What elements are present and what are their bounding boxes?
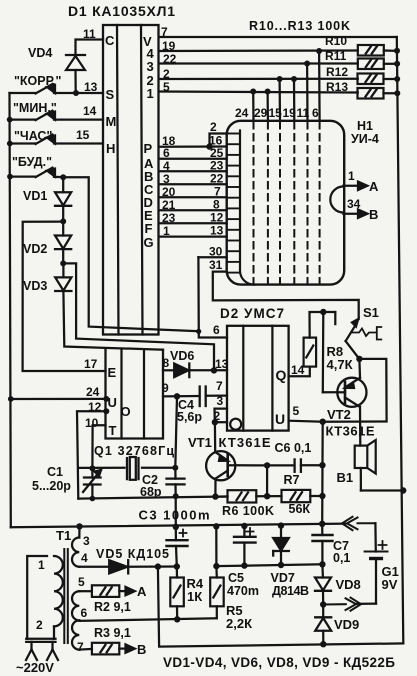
- label A2: [137, 584, 147, 599]
- label pin22: [163, 52, 177, 66]
- wire D2 pin14 to R8: [289, 367, 310, 377]
- wire T1 pin7 to R3: [79, 648, 92, 651]
- node VD1/VD2 E-tap: [60, 218, 66, 224]
- transformer T1 winding 6-7: [72, 620, 79, 649]
- svg-text:1: 1: [348, 169, 355, 183]
- svg-text:R10: R10: [325, 34, 347, 48]
- label D2 pin2: [214, 409, 221, 423]
- resistor R10: [358, 45, 397, 56]
- svg-text:17: 17: [84, 357, 98, 371]
- label G1: [382, 564, 399, 579]
- wire S1 node to U net: [323, 359, 387, 422]
- wire left bus: [10, 93, 11, 527]
- node rail VD7: [278, 522, 284, 528]
- labels display top pins 24 29 15 19 11 6: [235, 106, 319, 120]
- IC D2 body: [227, 326, 289, 431]
- display H1 body: [227, 121, 345, 285]
- svg-text:7: 7: [216, 379, 223, 393]
- resistor R13: [358, 88, 398, 99]
- switch SB MIN: [10, 111, 103, 121]
- svg-text:Н1: Н1: [357, 119, 373, 133]
- label VD7: [271, 571, 295, 585]
- svg-text:13: 13: [84, 80, 98, 94]
- pin 11 label: [83, 27, 96, 41]
- node C1 top: [89, 465, 95, 471]
- capacitor C4: [200, 387, 206, 407]
- resistor R12: [358, 74, 398, 85]
- svg-text:D1 КА1035ХЛ1: D1 КА1035ХЛ1: [68, 3, 175, 19]
- svg-text:R3 9,1: R3 9,1: [94, 626, 131, 640]
- wire terminal B2 arrow: [119, 644, 135, 652]
- transistor VT2: [323, 378, 367, 446]
- wire BUD node to D2 pin6 and display pin30: [63, 177, 198, 331]
- label diode types: [163, 655, 395, 670]
- node R12 bus: [394, 76, 400, 82]
- label 14: [83, 104, 97, 118]
- display inner pin stubs: [227, 134, 240, 273]
- label VD7 type: [272, 584, 309, 598]
- label T1 pin6: [81, 606, 88, 620]
- node D2 pin2 VT1: [212, 419, 218, 425]
- diode VD5: [79, 560, 177, 573]
- svg-text:23: 23: [162, 211, 176, 225]
- wire T pin to C1: [92, 425, 105, 468]
- svg-text:С3 1000m: С3 1000m: [139, 508, 210, 523]
- svg-text:R13: R13: [326, 80, 348, 94]
- svg-text:R10...R13 100K: R10...R13 100K: [249, 19, 350, 33]
- label D2 letter U: [275, 411, 285, 427]
- svg-text:O: O: [121, 404, 131, 419]
- label D2 pin8: [163, 356, 170, 370]
- label R4: [187, 576, 204, 591]
- label VD5 KD105: [96, 547, 169, 561]
- svg-text:3: 3: [163, 172, 170, 186]
- node bus MIN: [7, 117, 13, 123]
- label VT2 type: [326, 424, 375, 439]
- zener VD7: [273, 526, 289, 565]
- svg-text:S1: S1: [363, 305, 379, 320]
- label R2 9,1: [94, 600, 131, 614]
- label R4 value: [187, 589, 202, 604]
- svg-text:24: 24: [235, 106, 249, 120]
- node drop22: [304, 61, 310, 67]
- label R5: [226, 603, 243, 618]
- resistor R4: [170, 567, 184, 620]
- wire D2 pin5 to node: [289, 421, 323, 422]
- wire pin2 row: [159, 78, 358, 81]
- label VD1: [23, 189, 47, 203]
- label CHAS: [14, 129, 52, 143]
- wire drop row5 to display pin29: [266, 92, 269, 121]
- label T1 pin2: [36, 618, 43, 632]
- wire VD5 node down to bottom frame: [158, 567, 403, 647]
- label C1: [47, 465, 63, 479]
- svg-text:С5: С5: [228, 571, 244, 585]
- wire display pin30 stub: [198, 256, 226, 258]
- label D2 letter Q: [276, 367, 287, 383]
- switch SB KORR: [10, 84, 104, 94]
- switch SB BUD: [10, 168, 63, 178]
- D2 circle mark at pin2: [230, 419, 241, 430]
- svg-text:3: 3: [83, 534, 90, 548]
- diode VD3: [55, 263, 71, 291]
- svg-text:VD2: VD2: [23, 242, 47, 256]
- node pin9 drop: [174, 393, 180, 399]
- diode VD9: [315, 605, 331, 644]
- svg-text:VD9: VD9: [334, 617, 359, 632]
- node C2 bottom: [173, 493, 179, 499]
- label D2 pin9: [162, 381, 169, 395]
- wire T1 pin5 to R2: [79, 590, 92, 592]
- label C6 0,1: [275, 441, 312, 455]
- IC D1 title: [68, 3, 175, 19]
- label D2 pin3: [217, 394, 224, 408]
- label 12: [88, 400, 102, 414]
- label 17: [84, 357, 98, 371]
- IC D1 main body: [103, 25, 159, 335]
- svg-text:R7: R7: [284, 473, 300, 487]
- node VT1 collector on R6 wire: [212, 493, 218, 499]
- node drop2b: [291, 76, 297, 82]
- svg-text:21: 21: [162, 198, 176, 212]
- svg-text:29: 29: [254, 106, 268, 120]
- node rail R5 branch: [213, 523, 219, 529]
- svg-text:4,7К: 4,7К: [327, 357, 353, 372]
- label 220V: [16, 660, 54, 675]
- svg-text:Д814В: Д814В: [272, 584, 309, 598]
- connector X1 female: [342, 517, 375, 530]
- svg-text:VD6: VD6: [170, 349, 194, 363]
- wire rail branch down to R5/C5 row: [215, 526, 217, 566]
- labels D1 output pin numbers: [162, 134, 176, 238]
- svg-text:1: 1: [38, 558, 45, 572]
- wire oscillator ground row: [78, 497, 227, 499]
- wire lower mid row C5 VD7 C7: [216, 564, 322, 566]
- svg-text:15: 15: [76, 128, 90, 142]
- label KORR: [14, 74, 62, 88]
- node S1 emitter junction: [356, 356, 362, 362]
- node rail T1 pin3: [76, 523, 82, 529]
- node R5 top: [213, 563, 219, 569]
- label R7: [284, 473, 300, 487]
- svg-text:9: 9: [162, 381, 169, 395]
- display filament notch: [330, 187, 343, 213]
- label VD3: [23, 279, 47, 293]
- svg-text:19: 19: [283, 106, 297, 120]
- svg-text:VD5 КД105: VD5 КД105: [96, 547, 169, 561]
- resistor R11: [358, 59, 397, 70]
- label pin2: [163, 67, 170, 81]
- resistor R5: [210, 566, 224, 618]
- svg-text:4: 4: [81, 551, 88, 565]
- resistor R8: [304, 338, 317, 367]
- svg-text:9V: 9V: [382, 577, 398, 592]
- wire D2 pin3 bracket: [215, 409, 228, 423]
- label 13: [84, 80, 98, 94]
- node VD5 frame drop: [155, 563, 161, 569]
- label R10...R13 100K: [249, 19, 350, 33]
- wire pin9 to C4: [163, 395, 200, 398]
- wire drop row2 to display pin15: [278, 79, 281, 121]
- svg-text:Q: Q: [276, 367, 287, 383]
- switch S1: [335, 312, 381, 359]
- wire terminal A arrow: [343, 182, 367, 190]
- label T1 pin3: [83, 534, 90, 548]
- label pin5: [163, 80, 170, 94]
- node VD9 bottom frame: [320, 641, 326, 647]
- IC D1 lower section body: [106, 349, 164, 438]
- svg-text:13: 13: [210, 224, 224, 238]
- wire battery plus branch: [374, 523, 377, 551]
- node B1 bus: [400, 487, 406, 493]
- label BUD: [12, 155, 52, 169]
- svg-text:2: 2: [210, 120, 217, 134]
- wire terminal B arrow: [343, 210, 367, 218]
- label C4 value: [177, 410, 202, 424]
- svg-text:Q1 32768Гц: Q1 32768Гц: [94, 444, 174, 458]
- label pin7: [161, 25, 168, 39]
- node C1 bottom: [90, 496, 96, 502]
- wire U pin 24: [11, 398, 107, 400]
- node rail C3: [173, 524, 179, 530]
- label 10: [85, 416, 99, 430]
- capacitor C7: [313, 524, 333, 565]
- label R6 100K: [222, 504, 274, 518]
- label D2 UMS7: [220, 306, 284, 321]
- node VD6 D2pin13: [211, 367, 217, 373]
- diode VD8: [315, 564, 331, 604]
- node U pin: [103, 396, 109, 402]
- label 24: [86, 385, 100, 399]
- svg-text:U: U: [275, 411, 285, 427]
- svg-text:А: А: [369, 179, 379, 194]
- node bus U-wire: [8, 396, 14, 402]
- resistor R7: [282, 490, 311, 502]
- svg-text:R2 9,1: R2 9,1: [94, 600, 131, 614]
- label Q1: [94, 444, 174, 458]
- label D2 pin13: [215, 357, 229, 371]
- node drop2a: [277, 76, 283, 82]
- svg-text:"ЧАС": "ЧАС": [14, 129, 52, 143]
- svg-text:УИ-4: УИ-4: [351, 132, 379, 146]
- label R8 value: [327, 357, 353, 372]
- diode VD2: [55, 221, 71, 263]
- label G1 value: [382, 577, 398, 592]
- svg-text:КТ361Е: КТ361Е: [326, 424, 375, 439]
- node pin5 U junction: [320, 419, 326, 425]
- wire right bus: [397, 37, 404, 643]
- wire R8 top to S1/base node: [310, 312, 336, 338]
- wire VT1 base to C6: [235, 464, 294, 466]
- svg-text:F: F: [145, 221, 153, 236]
- node drop19: [316, 48, 322, 54]
- label D2 pin5: [293, 404, 300, 418]
- svg-text:5...20p: 5...20p: [32, 479, 71, 493]
- node C7 bottom: [319, 561, 325, 567]
- label VD9: [334, 617, 359, 632]
- svg-text:2: 2: [36, 618, 43, 632]
- svg-text:0,1: 0,1: [333, 551, 350, 565]
- svg-text:2,2К: 2,2К: [226, 616, 252, 631]
- svg-text:6: 6: [213, 323, 220, 337]
- wire drop row5 to display pin24: [252, 92, 255, 121]
- diode VD4: [66, 55, 85, 93]
- label C2: [142, 473, 158, 487]
- node R7 right: [319, 493, 325, 499]
- resistor R6: [228, 490, 257, 502]
- node VD7 bottom: [278, 562, 284, 568]
- svg-text:В: В: [369, 207, 378, 222]
- svg-text:C: C: [105, 33, 115, 48]
- wire VD2-VD3 node to VD6 node: [63, 263, 214, 370]
- wire pin11 to C: [76, 40, 104, 56]
- svg-text:D2 УМС7: D2 УМС7: [220, 306, 284, 321]
- svg-text:E: E: [108, 365, 117, 380]
- label T1 pin4: [81, 551, 88, 565]
- node R6R7 mid: [264, 493, 270, 499]
- wire display pin31 to S1: [213, 272, 359, 319]
- battery G1: [365, 541, 388, 604]
- wire VD1-VD2 node to pin E17: [23, 222, 106, 371]
- node R11 bus: [394, 61, 400, 67]
- diode VD1: [55, 177, 71, 221]
- svg-text:B1: B1: [337, 470, 354, 485]
- svg-text:1К: 1К: [187, 589, 202, 604]
- node bus CHAS: [7, 141, 13, 147]
- svg-text:6: 6: [312, 106, 319, 120]
- svg-text:VD1-VD4, VD6, VD8, VD9 - КД522: VD1-VD4, VD6, VD8, VD9 - КД522Б: [163, 655, 395, 670]
- node base/C6 junction: [264, 462, 270, 468]
- capacitor C5 electrolytic: [234, 526, 256, 566]
- wire battery minus to VD8 node: [357, 602, 377, 605]
- resistor R3: [92, 643, 119, 655]
- wire pin5 row: [159, 92, 358, 93]
- svg-text:7: 7: [214, 185, 221, 199]
- label C4: [178, 398, 194, 412]
- svg-text:R6 100K: R6 100K: [222, 504, 274, 518]
- wire S1 node down to VT2 emitter: [358, 359, 361, 378]
- node rail C7: [319, 521, 325, 527]
- capacitor C6: [295, 459, 323, 471]
- wire T1 pin6 row to R4 R5: [79, 618, 217, 621]
- label T1: [56, 528, 71, 543]
- wire base node down to VT2: [322, 312, 325, 392]
- wire drop row2 to display pin19: [293, 79, 296, 121]
- wire D2 pin2: [215, 421, 227, 423]
- wire C2 node down to rail: [175, 496, 177, 527]
- svg-text:Т1: Т1: [56, 528, 71, 543]
- svg-text:56К: 56К: [289, 502, 311, 516]
- svg-text:4: 4: [163, 159, 170, 173]
- label S1: [363, 305, 379, 320]
- svg-text:КТ361Е: КТ361Е: [219, 435, 271, 450]
- svg-text:22: 22: [210, 172, 224, 186]
- label B2: [137, 642, 146, 657]
- node drop5a: [250, 89, 256, 95]
- svg-text:M: M: [106, 114, 117, 129]
- crystal Q1: [127, 457, 139, 480]
- wire U node down to rail: [321, 422, 324, 524]
- label C7 value: [333, 551, 350, 565]
- label R12: [326, 65, 348, 79]
- svg-text:13: 13: [215, 357, 229, 371]
- transistor VT1: [206, 451, 235, 497]
- label A right: [369, 179, 379, 194]
- svg-text:VD8: VD8: [336, 577, 361, 592]
- node R10 bus: [394, 48, 400, 54]
- label C2 value: [140, 485, 162, 499]
- node pin2 on P wire: [206, 143, 212, 149]
- label 15: [76, 128, 90, 142]
- wire O pin to oscillator common: [77, 411, 106, 498]
- node O pin: [103, 408, 109, 414]
- svg-text:VT2: VT2: [327, 407, 351, 422]
- connector X2 male: [323, 598, 361, 611]
- node rail C5: [241, 523, 247, 529]
- svg-text:С1: С1: [47, 465, 63, 479]
- svg-text:T: T: [109, 423, 117, 438]
- label H1: [357, 119, 373, 133]
- resistor R2: [92, 585, 119, 597]
- capacitor C3 electrolytic: [167, 527, 188, 567]
- label R13: [326, 80, 348, 94]
- label UI-4: [351, 132, 379, 146]
- label R5 value: [226, 616, 252, 631]
- label VD2: [23, 242, 47, 256]
- node R13 bus: [394, 90, 400, 96]
- svg-text:R12: R12: [326, 65, 348, 79]
- wire pin22 row: [159, 62, 358, 64]
- transformer T1 winding 5-6: [72, 591, 79, 620]
- svg-text:1: 1: [163, 224, 170, 238]
- label R3 9,1: [94, 626, 131, 640]
- label VT1: [188, 435, 212, 450]
- svg-text:1: 1: [147, 86, 154, 101]
- label T1 pin7: [77, 640, 84, 654]
- label R8: [327, 344, 344, 359]
- svg-text:VD7: VD7: [271, 571, 295, 585]
- label T1 pin5: [78, 575, 85, 589]
- node C5 bottom: [241, 562, 247, 568]
- svg-text:12: 12: [210, 211, 224, 225]
- label pin1 A: [348, 169, 355, 183]
- capacitor C1 trimmer: [83, 468, 101, 498]
- label D2 pin14: [291, 363, 305, 377]
- svg-text:20: 20: [162, 185, 176, 199]
- svg-text:3: 3: [217, 394, 224, 408]
- svg-text:"БУД.": "БУД.": [12, 155, 52, 169]
- label R11: [325, 49, 347, 63]
- wire pin19 row: [159, 49, 358, 52]
- label C3 1000m: [139, 508, 210, 523]
- node BUD wire pin30 join: [196, 329, 201, 334]
- node VD8 G1: [320, 601, 326, 607]
- svg-text:VD3: VD3: [23, 279, 47, 293]
- capacitor C2: [167, 468, 185, 496]
- wire pin2 node down to VT1 emitter: [214, 422, 217, 452]
- label C5 value: [227, 584, 259, 598]
- label pin34: [347, 197, 361, 211]
- svg-text:G: G: [144, 235, 154, 250]
- node junction VD4/S: [73, 90, 79, 96]
- svg-text:31: 31: [209, 258, 223, 272]
- label 56K: [289, 502, 311, 516]
- svg-text:С6 0,1: С6 0,1: [275, 441, 312, 455]
- svg-text:6: 6: [163, 146, 170, 160]
- svg-text:А: А: [137, 584, 147, 599]
- wire terminal A2 arrow: [119, 587, 135, 595]
- node R8/VT2 base: [320, 309, 326, 315]
